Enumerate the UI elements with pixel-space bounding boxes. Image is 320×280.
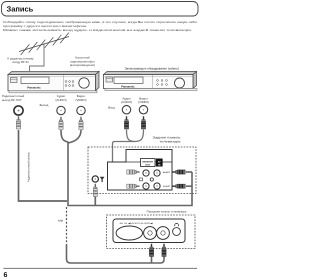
panel small s-video jack: [150, 178, 153, 181]
AV cable from VCR1: [61, 130, 192, 206]
label: видео вход (VCR2): [138, 96, 149, 104]
panel jack: av in video: [154, 170, 160, 176]
RF OUT jack (VCR1): [14, 106, 23, 115]
video plug (VCR1): [79, 117, 83, 130]
intro paragraph: [3, 20, 198, 32]
svg-text:ВИДЕО: ВИДЕО: [163, 171, 171, 174]
svg-text:AV IN ◀VIDEO AUDIO◀: AV IN ◀VIDEO AUDIO◀: [120, 222, 154, 225]
front panel of TV: [113, 219, 185, 243]
antenna symbol: [100, 177, 105, 182]
svg-text:Вход: Вход: [108, 106, 115, 110]
monitor out audio plug (gray, points right): [127, 184, 140, 188]
AV cable to VCR2: [113, 130, 144, 187]
front video plug (black): [149, 244, 153, 257]
svg-text:Выход: Выход: [40, 103, 49, 107]
svg-text:Записывающее оборудование (зап: Записывающее оборудование (запись): [125, 66, 180, 70]
MONITOR OUT label box: [141, 159, 156, 167]
svg-text:входу RF IN: входу RF IN: [13, 60, 29, 64]
back panel of TV: [108, 150, 173, 191]
video in jack (VCR2): [139, 106, 147, 114]
front panel dashed box: [107, 215, 196, 249]
antenna input jack (TV): [92, 176, 98, 182]
label: задняя панель телевизора: [153, 136, 182, 144]
svg-text:(AUDIO): (AUDIO): [121, 100, 132, 104]
svg-text:(VIDEO): (VIDEO): [76, 98, 87, 102]
RF plug (VCR1): [16, 116, 20, 129]
panel jack: monitor out audio: [143, 183, 149, 189]
antenna: [19, 33, 69, 75]
label: видео выход (VCR1): [76, 94, 87, 102]
front audio plug (black): [162, 244, 166, 257]
video out jack (VCR1): [77, 106, 85, 114]
headphone jack: [173, 223, 181, 235]
svg-text:Запись: Запись: [7, 5, 34, 14]
av in audio plug (black, points left): [173, 184, 186, 188]
VCR U1 (playback): [8, 71, 99, 93]
svg-text:или: или: [58, 218, 64, 222]
panel jack: monitor out video: [143, 170, 149, 176]
label: радиочастотный выход RF OUT: [2, 94, 25, 102]
monitor out video plug (gray, points right): [127, 170, 140, 174]
alternative dashed cable (или): [66, 207, 68, 245]
footer rule: [4, 267, 198, 269]
svg-text:Panasonic: Panasonic: [121, 85, 135, 88]
audio plug (VCR2): [124, 116, 128, 129]
back panel dashed box: [88, 147, 196, 194]
AV IN label box: [156, 159, 163, 167]
RF plug (TV): [93, 184, 97, 197]
svg-text:(воспроизведение): (воспроизведение): [70, 63, 95, 67]
audio plug (VCR1): [59, 117, 63, 130]
front jack: audio: [157, 227, 170, 240]
video plug (VCR2): [141, 116, 145, 129]
svg-text:6: 6: [4, 272, 8, 279]
title box: [2, 2, 199, 17]
svg-text:АУДИО: АУДИО: [163, 185, 170, 188]
cable to front panel: [67, 245, 165, 264]
audio out jack (VCR1): [57, 106, 65, 114]
label: аудио выход (VCR1): [55, 94, 66, 102]
svg-text:Радиочастотный кабель: Радиочастотный кабель: [28, 151, 31, 182]
label: кассетный видеомагнитофон (воспроизведение): [70, 56, 95, 68]
front s-video oval: [116, 226, 142, 240]
front jack: video: [144, 227, 157, 240]
svg-text:Передняя панель телевизора: Передняя панель телевизора: [147, 209, 187, 213]
svg-text:OUT: OUT: [145, 163, 150, 166]
svg-text:выход RF OUT: выход RF OUT: [2, 98, 22, 102]
svg-text:MONITOR: MONITOR: [143, 160, 154, 163]
av in video plug (black, points left): [173, 170, 186, 174]
panel small switch: [140, 178, 143, 181]
label: к радиочастотному входу RF IN: [8, 56, 34, 64]
svg-text:Можно также использовать вход: Можно также использовать вход аудио- и в…: [3, 28, 192, 32]
label: аудио вход (VCR2): [121, 96, 132, 104]
panel jack: av in audio: [154, 183, 160, 189]
svg-text:телевизора: телевизора: [160, 140, 181, 144]
svg-text:Panasonic: Panasonic: [27, 87, 41, 90]
svg-text:(AUDIO): (AUDIO): [55, 98, 66, 102]
audio in jack (VCR2): [122, 106, 130, 114]
RF cable: [19, 130, 68, 201]
VCR U2 (recording): [104, 72, 198, 91]
svg-text:(VIDEO): (VIDEO): [138, 100, 149, 104]
